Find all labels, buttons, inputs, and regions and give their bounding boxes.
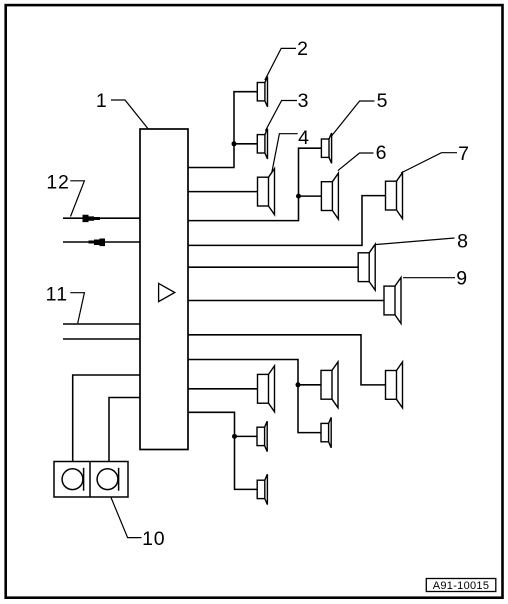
rear mid tweeter [321,417,331,447]
leader 11 [70,293,84,324]
wire branch to rear left tweeter [235,435,258,437]
input wire IN2 [63,241,140,243]
rear mid woofer [321,362,338,408]
wire W10 to rear left tweeters [188,412,257,489]
rear bottom tweeter [257,474,267,504]
leader 1 [111,100,149,129]
drawing number plate A91-10015 [426,579,496,593]
input wire IN4 [63,338,140,340]
input wire IN3 [63,323,140,325]
svg-text:9: 9 [456,268,467,290]
svg-text:6: 6 [376,142,387,164]
rear right woofer [386,362,403,408]
wire to woofer box left [73,375,140,462]
wire branch to speaker 3 [234,143,257,145]
junction node J1 [232,141,237,146]
leader 12 [70,181,84,217]
leader 2 [265,48,296,80]
svg-text:A91-10015: A91-10015 [433,580,490,592]
speaker LS9 [384,278,401,324]
wire W2 to speaker 4 [188,191,258,193]
speaker LS3 [257,129,267,159]
amplifier box U1 [140,129,188,450]
svg-text:10: 10 [142,528,165,550]
svg-text:3: 3 [298,90,309,112]
subwoofer box assembly (item 10) [54,462,128,498]
wire W6 to speaker 9 [188,300,384,302]
wire W4 to speaker 7 [188,196,386,246]
leader 5 [332,101,375,136]
rear left tweeter [257,421,267,451]
junction node J2 [296,194,301,199]
triangle symbol inside U1 [159,283,175,301]
speaker LS4 [258,169,275,215]
junction node J3 [296,382,301,387]
svg-text:5: 5 [377,90,388,112]
svg-text:1: 1 [96,90,107,112]
leader 3 [265,101,297,131]
wire branch to speaker 6 [299,195,322,197]
junction node J4 [232,434,237,439]
speaker LS5 [321,133,331,163]
speaker LS7 [386,173,403,219]
svg-text:7: 7 [458,143,469,165]
leader 6 [338,153,374,171]
rear left woofer [258,366,275,412]
leader 7 [401,153,457,173]
svg-text:11: 11 [46,284,69,306]
speaker LS8 [358,244,375,290]
svg-text:12: 12 [46,172,69,194]
wire W5 to speaker 8 [188,266,358,268]
wire W9 to rear left woofer [188,388,258,390]
wire to woofer box right [109,398,140,462]
wire W8 to rear mid speakers [188,360,321,433]
leader 10 [111,498,142,538]
svg-text:4: 4 [298,127,309,149]
wire branch to rear mid woofer [298,384,321,386]
leader 4 [272,134,298,173]
svg-text:2: 2 [297,38,308,60]
wire W7 to rear right woofer [188,335,386,385]
svg-text:8: 8 [457,231,468,253]
leader 9 [403,277,455,279]
input wire IN1 [63,217,140,219]
speaker LS2 [257,77,267,107]
wire W1 to speakers 2/3 [188,92,257,168]
wire W3 to speakers 5/6 [188,148,321,220]
connector arrow left [89,239,106,247]
speaker LS6 [321,173,338,219]
connector arrow right [83,215,101,222]
leader 8 [373,238,455,247]
